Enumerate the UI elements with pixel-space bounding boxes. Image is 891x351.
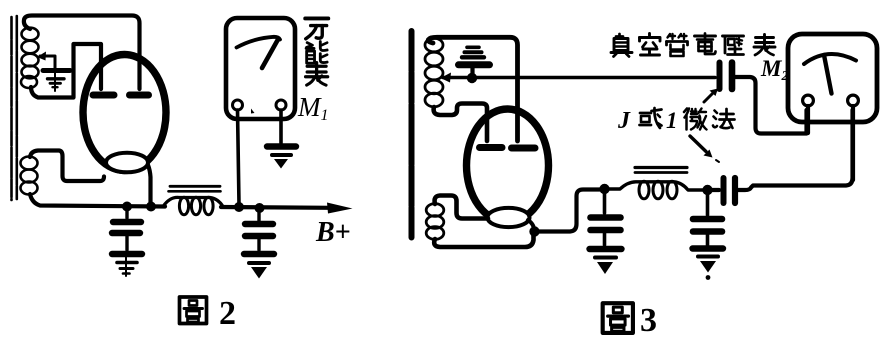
svg-text:2: 2 [219,295,236,332]
svg-text:3: 3 [640,302,657,339]
svg-text:M2: M2 [760,56,788,84]
svg-text:B+: B+ [315,217,351,248]
svg-text:J: J [617,108,631,134]
svg-text:M1: M1 [297,92,329,124]
svg-text:1: 1 [666,108,678,133]
